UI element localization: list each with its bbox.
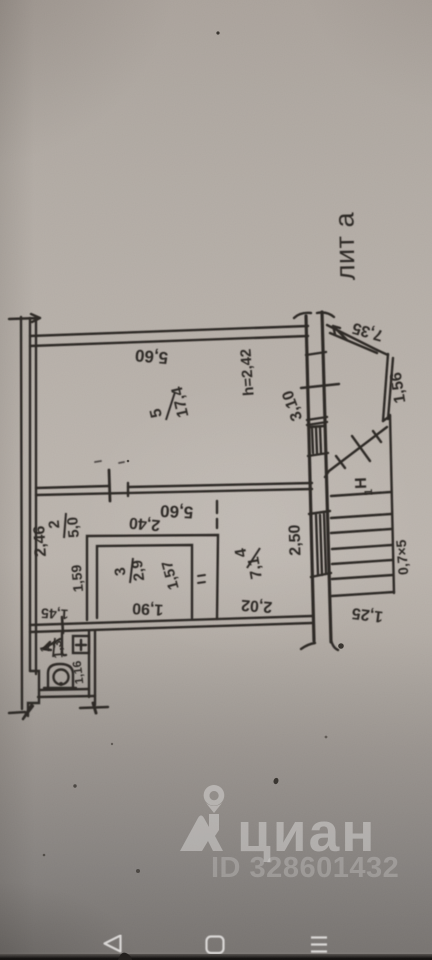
window divider w3 — [307, 417, 327, 425]
speck 2 — [273, 777, 280, 785]
door jamb middle wall — [109, 470, 110, 501]
wc wall right inner — [88, 631, 90, 697]
stair step 6 — [332, 592, 394, 596]
wall middle upper line — [36, 483, 312, 488]
entry arrow — [43, 639, 60, 650]
sink square — [73, 636, 89, 653]
balcony bottom corner — [383, 416, 390, 421]
speck stair dot — [338, 643, 344, 649]
svg-text:2,50: 2,50 — [286, 524, 304, 556]
wall top outer — [30, 326, 308, 336]
stair step 3 — [332, 545, 392, 549]
wall bottom inner — [30, 623, 312, 632]
svg-text:2,40: 2,40 — [128, 514, 161, 534]
wc wall right outer — [94, 631, 96, 705]
speck 6 — [111, 743, 113, 745]
speck 4 — [136, 869, 140, 873]
door leaf wc — [62, 633, 66, 655]
balcony parapet right — [383, 354, 393, 421]
cian logo pin point — [206, 803, 222, 813]
window divider w4 — [308, 453, 328, 456]
speck 7 — [325, 736, 328, 739]
WATERMARK — [180, 785, 399, 884]
stair step 2 — [331, 529, 391, 533]
toilet dot — [59, 682, 63, 686]
stair tick 1 — [336, 456, 345, 468]
nav home button — [207, 937, 224, 954]
svg-text:1,16: 1,16 — [70, 660, 87, 685]
svg-text:1,45: 1,45 — [41, 605, 69, 622]
balcony parapet top — [327, 325, 377, 353]
stair landing edge — [331, 492, 391, 496]
wall right east line — [322, 312, 331, 642]
balcony corner link — [377, 350, 388, 355]
wall bottom outer — [30, 616, 312, 625]
wc bottom wall inner — [39, 689, 89, 690]
wall left inner — [35, 318, 37, 674]
svg-text:1,3: 1,3 — [49, 640, 66, 659]
stair region boundary — [390, 415, 394, 593]
wall left jog — [23, 671, 39, 719]
nav menu button — [311, 938, 327, 952]
svg-text:1: 1 — [363, 489, 375, 496]
dimension guide line left — [21, 317, 22, 709]
window divider w1 — [306, 352, 326, 355]
arrow to top-right corner — [333, 326, 347, 340]
svg-text:5,60: 5,60 — [134, 346, 169, 368]
stair tick 3 — [373, 431, 381, 442]
svg-text:2,9: 2,9 — [129, 559, 148, 582]
window glazing room4 — [316, 514, 326, 575]
room4 fraction bar — [247, 548, 260, 568]
svg-text:5,0: 5,0 — [64, 516, 83, 538]
wall middle lower line — [36, 489, 312, 495]
speck 5 — [43, 854, 46, 857]
svg-text:ID 328601432: ID 328601432 — [211, 852, 399, 884]
NAVBAR — [105, 936, 328, 954]
window divider w5 — [309, 511, 330, 514]
stair step 5 — [332, 575, 393, 579]
toilet bowl — [48, 664, 73, 688]
speck 3 — [73, 784, 76, 787]
SPECKS — [43, 31, 344, 960]
bathroom door dashes — [198, 575, 205, 583]
door jamb tick 2 — [127, 483, 129, 496]
cian logo mark peak — [180, 814, 223, 851]
toilet base line — [44, 687, 76, 689]
svg-text:0,7×5: 0,7×5 — [393, 539, 411, 576]
cian logo pin head — [204, 785, 225, 806]
svg-text:h=2,42: h=2,42 — [237, 348, 257, 396]
bathroom box inner — [97, 545, 192, 618]
wall top inner — [30, 336, 308, 346]
guide arrow top-left — [9, 314, 40, 322]
room2 fraction bar — [64, 513, 66, 538]
guide tick bottom-left — [9, 704, 32, 719]
PLAN — [9, 312, 394, 719]
door jamb wc — [62, 617, 63, 633]
room5 fraction bar — [166, 392, 175, 420]
wall right west line — [306, 316, 314, 641]
window glazing room5 — [310, 426, 324, 453]
svg-text:1,90: 1,90 — [132, 599, 164, 618]
speck 1 — [216, 31, 219, 34]
svg-text:2,02: 2,02 — [240, 596, 272, 615]
nav back button — [105, 936, 121, 952]
bathroom box outer — [87, 535, 218, 620]
window sill line w2 — [301, 384, 339, 388]
svg-text:5,60: 5,60 — [160, 501, 194, 522]
wc wall end tick — [80, 707, 108, 708]
stair step 4 — [332, 560, 392, 564]
door swing dashes room5 — [95, 461, 124, 463]
speck bottom blob — [118, 953, 132, 960]
svg-text:Н: Н — [353, 477, 370, 489]
dashed divider corridor-kitchen — [216, 501, 218, 528]
stair step 1 — [331, 514, 391, 518]
wall right top cap — [294, 313, 334, 319]
speck room5 — [127, 460, 130, 463]
wall left outer — [29, 318, 31, 671]
room3 fraction bar — [130, 558, 133, 583]
svg-text:2: 2 — [46, 519, 64, 529]
stair direction line — [325, 427, 387, 477]
wc bottom wall outer — [38, 696, 95, 697]
sink cross — [76, 640, 86, 650]
stair tick 2 — [352, 436, 370, 461]
room1 fraction bar — [53, 638, 55, 657]
svg-text:лит а: лит а — [329, 211, 360, 280]
toilet seat circle — [54, 670, 69, 685]
wc wall end blob — [93, 703, 96, 713]
wall right bottom cap — [301, 640, 338, 650]
svg-text:1,59: 1,59 — [68, 564, 86, 593]
window divider w6 — [311, 573, 331, 577]
